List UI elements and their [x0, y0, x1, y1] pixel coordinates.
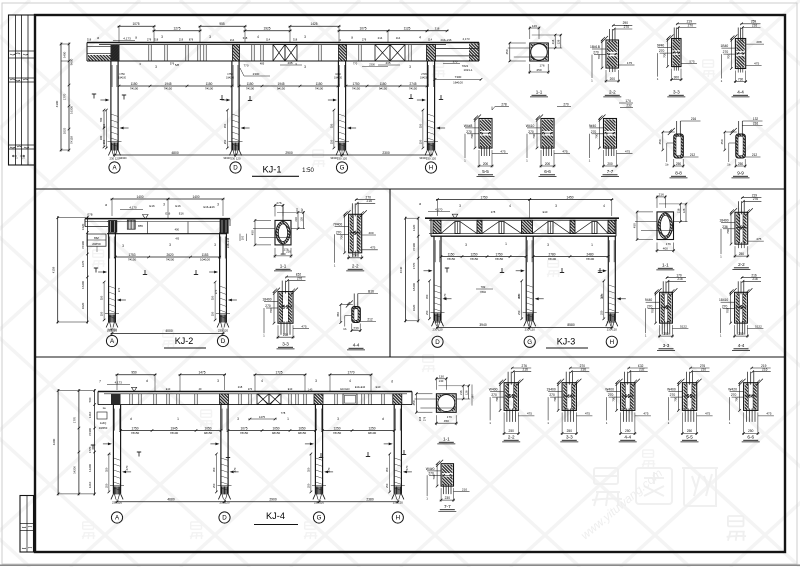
svg-text:350: 350	[418, 123, 422, 128]
svg-text:450: 450	[536, 68, 541, 72]
svg-text:E16: E16	[179, 211, 184, 215]
svg-text:500: 500	[88, 397, 92, 402]
svg-text:1275: 1275	[259, 415, 266, 419]
svg-text:250: 250	[418, 139, 422, 144]
svg-text:700: 700	[726, 308, 730, 313]
svg-text:1250: 1250	[471, 252, 478, 256]
svg-text:7#100: 7#100	[205, 87, 214, 91]
section 1-1 (KJ-4)	[436, 394, 456, 413]
svg-text:7#02: 7#02	[480, 290, 486, 294]
svg-text:G: G	[527, 339, 532, 346]
svg-text:232: 232	[626, 103, 632, 107]
svg-text:126: 126	[465, 390, 469, 395]
KJ-4 left annotations	[102, 406, 106, 410]
svg-text:1945: 1945	[165, 82, 172, 86]
section 2-2 (KJ-2)	[351, 203, 353, 216]
svg-text:126: 126	[682, 208, 686, 213]
svg-text:174: 174	[625, 99, 631, 103]
svg-text:278: 278	[362, 38, 367, 42]
section 4-4 (KJ-1)	[737, 28, 739, 41]
svg-text:700: 700	[726, 229, 730, 234]
KJ-1 bottom dimension row	[113, 154, 237, 156]
svg-text:1750: 1750	[353, 82, 360, 86]
svg-text:9#150: 9#150	[204, 431, 213, 435]
svg-text:2300: 2300	[369, 63, 375, 67]
svg-text:276: 276	[297, 276, 303, 280]
svg-text:H: H	[429, 165, 433, 172]
svg-text:1150: 1150	[448, 252, 455, 256]
svg-text:H: H	[610, 339, 614, 346]
svg-text:1021-1: 1021-1	[463, 68, 472, 72]
svg-text:3: 3	[547, 243, 549, 247]
svg-text:4200: 4200	[52, 438, 56, 445]
svg-text:E16+E16: E16+E16	[203, 205, 215, 209]
svg-text:216: 216	[762, 368, 768, 372]
svg-text:7#300: 7#300	[81, 241, 85, 249]
svg-text:D: D	[222, 515, 227, 522]
svg-text:219: 219	[179, 39, 184, 42]
svg-text:216: 216	[691, 117, 697, 121]
svg-text:200: 200	[483, 162, 489, 166]
svg-text:9440: 9440	[645, 298, 653, 302]
svg-text:2900: 2900	[269, 498, 277, 502]
svg-text:350: 350	[329, 123, 333, 128]
KJ-1 section cut marks	[93, 94, 95, 99]
svg-text:1153: 1153	[202, 253, 209, 257]
svg-text:276: 276	[753, 197, 759, 201]
svg-text:2-2: 2-2	[609, 90, 616, 95]
svg-text:3: 3	[214, 243, 216, 247]
svg-text:W410: W410	[526, 124, 535, 128]
KJ-2 title	[175, 336, 194, 346]
svg-text:2-2: 2-2	[508, 435, 515, 440]
svg-text:250: 250	[625, 429, 631, 433]
svg-text:9#150: 9#150	[298, 431, 307, 435]
svg-text:350: 350	[104, 467, 108, 472]
svg-text:64: 64	[295, 208, 299, 212]
svg-text:14200: 14200	[73, 466, 77, 474]
svg-text:250: 250	[663, 332, 669, 336]
svg-text:350: 350	[385, 467, 389, 472]
KJ-3 stirrup dim row left span	[441, 256, 526, 258]
svg-text:9#40: 9#40	[657, 44, 665, 48]
svg-text:1050: 1050	[205, 426, 212, 430]
svg-text:4300: 4300	[55, 100, 59, 107]
band divider 2	[35, 356, 785, 358]
svg-text:250: 250	[223, 139, 227, 144]
svg-text:7#100: 7#100	[315, 87, 324, 91]
svg-text:230: 230	[283, 333, 289, 337]
svg-text:216: 216	[752, 23, 758, 27]
svg-text:9#400: 9#400	[420, 157, 428, 160]
svg-text:230: 230	[353, 327, 359, 331]
svg-text:200: 200	[545, 162, 551, 166]
svg-text:3420: 3420	[81, 223, 85, 230]
svg-text:230: 230	[445, 496, 451, 500]
svg-text:9#400: 9#400	[224, 157, 232, 160]
svg-text:7#150: 7#150	[447, 257, 456, 261]
svg-text:9#400: 9#400	[120, 157, 128, 160]
svg-text:450: 450	[720, 139, 724, 144]
KJ-1 left dimension chain inner	[68, 43, 70, 152]
svg-text:250: 250	[599, 310, 603, 315]
svg-text:1770: 1770	[412, 262, 416, 269]
svg-text:450: 450	[412, 400, 416, 405]
KJ-1 title	[263, 165, 282, 175]
svg-text:475: 475	[756, 237, 761, 241]
svg-text:1: 1	[591, 243, 593, 247]
svg-text:E10: E10	[288, 388, 293, 391]
KJ-2 bottom dimension row	[111, 332, 225, 334]
KJ-4 top dimension row	[116, 374, 157, 376]
svg-text:218: 218	[238, 385, 243, 389]
svg-text:370: 370	[453, 60, 458, 64]
KJ-4 column H	[393, 405, 395, 494]
svg-text:270: 270	[723, 50, 729, 54]
svg-text:1050: 1050	[335, 73, 341, 76]
svg-text:400: 400	[368, 231, 373, 235]
svg-text:7#150: 7#150	[352, 87, 361, 91]
svg-text:1b: 1b	[343, 327, 347, 331]
svg-text:3: 3	[337, 417, 339, 421]
svg-text:7300: 7300	[455, 75, 462, 79]
svg-text:7#150: 7#150	[409, 87, 418, 91]
KJ-4 axis bubble A	[111, 512, 122, 523]
svg-text:7#100: 7#100	[412, 243, 416, 251]
svg-text:270: 270	[517, 293, 521, 298]
svg-text:18410: 18410	[719, 298, 728, 302]
svg-text:130: 130	[439, 375, 444, 379]
svg-text:475: 475	[754, 61, 759, 65]
svg-text:250: 250	[329, 139, 333, 144]
svg-text:18400: 18400	[262, 298, 271, 302]
svg-text:475: 475	[562, 149, 567, 153]
svg-text:2900: 2900	[285, 151, 293, 155]
svg-text:270: 270	[265, 304, 271, 308]
svg-text:216: 216	[419, 416, 422, 421]
svg-text:7#150: 7#150	[240, 431, 249, 435]
KJ-1 axis bubble H	[425, 162, 436, 173]
svg-text:400: 400	[663, 247, 668, 251]
svg-text:2620: 2620	[167, 253, 174, 257]
svg-text:9#100: 9#100	[368, 431, 377, 435]
svg-text:W400: W400	[489, 388, 498, 392]
KJ-3 bottom dimension row	[436, 326, 531, 328]
svg-text:270: 270	[248, 388, 253, 391]
svg-text:114: 114	[266, 38, 271, 42]
svg-text:2745: 2745	[421, 73, 427, 76]
svg-text:250: 250	[739, 252, 745, 256]
svg-text:700: 700	[595, 133, 599, 138]
svg-text:475: 475	[370, 246, 375, 250]
svg-text:3-3: 3-3	[663, 343, 670, 348]
svg-text:270: 270	[528, 130, 534, 134]
svg-text:114: 114	[428, 38, 433, 42]
svg-text:216: 216	[753, 121, 759, 125]
section 3-3 (KJ-3)	[662, 281, 664, 294]
svg-text:1050: 1050	[299, 426, 306, 430]
svg-text:3-3: 3-3	[566, 435, 573, 440]
svg-text:270: 270	[443, 293, 447, 298]
svg-text:212: 212	[367, 317, 373, 321]
KJ-1 extra small annotations	[87, 38, 92, 42]
frame KJ-4 beam	[98, 391, 412, 393]
svg-text:270: 270	[563, 102, 569, 106]
svg-text:1020: 1020	[412, 304, 416, 311]
svg-text:4-4: 4-4	[737, 90, 744, 95]
svg-text:250: 250	[104, 483, 108, 488]
svg-text:4: 4	[261, 379, 263, 383]
svg-text:7#150: 7#150	[128, 258, 137, 262]
svg-text:270: 270	[549, 393, 555, 397]
svg-text:KJ-1: KJ-1	[263, 165, 282, 175]
svg-text:700: 700	[651, 308, 655, 313]
svg-text:3: 3	[217, 379, 219, 383]
svg-text:132: 132	[753, 117, 759, 121]
svg-text:7#100: 7#100	[548, 257, 557, 261]
svg-text:475: 475	[301, 325, 306, 329]
svg-text:700: 700	[269, 308, 273, 313]
section 2-2 (KJ-3)	[738, 201, 740, 214]
svg-text:7#22: 7#22	[462, 64, 469, 68]
svg-text:176: 176	[666, 242, 671, 246]
svg-text:250: 250	[567, 429, 573, 433]
svg-text:318: 318	[87, 38, 92, 42]
svg-text:216: 216	[677, 277, 683, 281]
svg-text:E10 E10: E10 E10	[340, 388, 350, 391]
svg-text:7#150: 7#150	[333, 431, 342, 435]
svg-text:3: 3	[459, 204, 461, 208]
KJ-3 column G	[525, 236, 527, 321]
svg-text:1750: 1750	[132, 426, 139, 430]
svg-text:270: 270	[466, 130, 472, 134]
section 4-4 (KJ-4)	[624, 372, 626, 385]
svg-text:7#150: 7#150	[495, 257, 504, 261]
svg-text:180: 180	[99, 135, 103, 140]
KJ-4 left dimension chain outermost	[57, 389, 59, 495]
svg-text:1770: 1770	[88, 446, 92, 453]
svg-text:1770: 1770	[63, 93, 67, 100]
svg-text:475: 475	[500, 149, 505, 153]
svg-text:7#150: 7#150	[131, 431, 140, 435]
svg-text:270: 270	[591, 130, 597, 134]
svg-text:1270: 1270	[81, 260, 85, 267]
svg-text:9#400: 9#400	[331, 157, 339, 160]
svg-text:770: 770	[243, 64, 248, 68]
svg-text:7-7: 7-7	[444, 504, 451, 509]
svg-text:14200: 14200	[88, 464, 92, 472]
svg-text:3: 3	[209, 35, 211, 39]
svg-text:1075: 1075	[359, 27, 366, 31]
section 6-6 (KJ-4)	[747, 372, 749, 385]
band 2 vertical divider	[389, 189, 391, 357]
svg-text:3: 3	[161, 35, 163, 39]
svg-text:3: 3	[237, 417, 239, 421]
KJ-2 beam mid dividers	[147, 222, 149, 234]
svg-text:1750: 1750	[496, 252, 503, 256]
svg-text:288: 288	[756, 40, 761, 44]
svg-text:2300: 2300	[382, 151, 390, 155]
svg-text:1075: 1075	[241, 426, 248, 430]
svg-text:a: a	[419, 202, 421, 206]
svg-text:4-4: 4-4	[738, 343, 745, 348]
section 2-2 (KJ-1)	[609, 29, 611, 42]
svg-text:19400: 19400	[547, 388, 556, 392]
svg-text:1-1: 1-1	[662, 263, 669, 268]
svg-text:700: 700	[340, 235, 344, 240]
svg-text:1750: 1750	[480, 195, 487, 199]
section 3-3 (KJ-4)	[565, 372, 567, 385]
section 6-6 (KJ-1)	[543, 146, 545, 156]
svg-text:1150: 1150	[380, 82, 387, 86]
svg-text:4,170: 4,170	[129, 206, 137, 210]
svg-text:575: 575	[689, 59, 694, 63]
svg-text:950: 950	[131, 371, 137, 375]
svg-text:3: 3	[122, 244, 124, 248]
svg-text:782: 782	[481, 285, 486, 289]
svg-text:216: 216	[286, 250, 291, 254]
svg-text:700: 700	[532, 133, 536, 138]
svg-text:300: 300	[674, 75, 680, 79]
svg-text:475: 475	[643, 412, 648, 416]
svg-text:350: 350	[211, 295, 215, 300]
svg-text:18200: 18200	[412, 283, 416, 291]
svg-text:216: 216	[523, 368, 529, 372]
svg-text:1050: 1050	[273, 426, 280, 430]
svg-text:216: 216	[367, 199, 373, 203]
svg-text:270: 270	[117, 287, 121, 292]
section 1-1 (KJ-2)	[275, 220, 291, 245]
svg-text:250: 250	[306, 483, 310, 488]
KJ-1 column A	[110, 61, 112, 150]
svg-text:10#100: 10#100	[118, 76, 127, 79]
svg-text:114: 114	[396, 36, 401, 40]
KJ-2 beam column-A top block	[108, 220, 117, 233]
svg-text:216: 216	[581, 368, 587, 372]
svg-text:700: 700	[726, 54, 730, 59]
svg-text:G: G	[340, 165, 345, 172]
svg-text:878: 878	[189, 39, 194, 42]
svg-text:270: 270	[659, 49, 665, 53]
svg-text:318: 318	[243, 36, 248, 40]
KJ-2 stirrup dim row	[115, 256, 219, 258]
KJ-1 right cantilever annotation	[453, 60, 458, 64]
svg-text:7#100: 7#100	[586, 257, 595, 261]
svg-text:G: G	[317, 515, 322, 522]
svg-text:435: 435	[287, 61, 292, 65]
svg-text:3940: 3940	[479, 323, 487, 327]
KJ-3 mid annotations	[465, 243, 467, 247]
svg-text:250: 250	[738, 162, 744, 166]
section 4-4 (KJ-2)	[353, 294, 355, 309]
svg-text:1425: 1425	[310, 22, 317, 26]
svg-text:10#150: 10#150	[334, 76, 343, 79]
section 3-3 (KJ-2)	[281, 281, 283, 294]
svg-text:16200: 16200	[81, 281, 85, 289]
svg-text:4,173: 4,173	[115, 381, 123, 385]
svg-text:1150: 1150	[131, 82, 138, 86]
section 2-2 (KJ-4)	[507, 372, 509, 385]
KJ-4 axis bubble G	[313, 512, 324, 523]
svg-text:1770: 1770	[347, 371, 354, 375]
svg-text:5/8: 5/8	[175, 63, 180, 67]
svg-text:3: 3	[163, 203, 165, 207]
KJ-4 mid annotations	[130, 417, 132, 421]
svg-text:700: 700	[470, 133, 474, 138]
svg-text:1125: 1125	[404, 27, 411, 31]
section 7-7 (KJ-1)	[605, 146, 607, 156]
section 4-4 (KJ-3)	[737, 281, 739, 294]
svg-text:E7B: E7B	[88, 213, 93, 217]
svg-text:350: 350	[306, 467, 310, 472]
KJ-2 level mark	[143, 215, 149, 219]
svg-text:1450: 1450	[566, 195, 573, 199]
svg-text:4: 4	[419, 36, 421, 40]
svg-text:E16+E16: E16+E16	[227, 237, 230, 248]
svg-text:475: 475	[585, 412, 590, 416]
KJ-2 beam column-D top block	[220, 219, 229, 234]
svg-text:230 120: 230 120	[109, 157, 120, 161]
svg-text:250: 250	[385, 483, 389, 488]
KJ-4 beam stiffeners and haunch	[111, 394, 121, 405]
svg-text:126: 126	[557, 39, 561, 44]
svg-text:9#150: 9#150	[379, 87, 388, 91]
svg-text:270: 270	[647, 304, 653, 308]
svg-text:4800: 4800	[171, 151, 179, 155]
svg-text:1400: 1400	[136, 195, 143, 199]
svg-text:350: 350	[425, 294, 429, 299]
title strip bottom-left	[20, 496, 34, 553]
svg-text:3: 3	[465, 243, 467, 247]
svg-text:16#100: 16#100	[453, 81, 463, 85]
svg-text:250: 250	[517, 310, 521, 315]
svg-text:1150: 1150	[247, 82, 254, 86]
section 7-7 (KJ-4)	[443, 484, 445, 494]
svg-text:216: 216	[294, 217, 298, 222]
svg-text:d: d	[382, 417, 384, 421]
KJ-1 left dimension chain outer	[60, 43, 62, 152]
svg-text:270: 270	[428, 471, 434, 475]
svg-text:3-3: 3-3	[673, 90, 680, 95]
svg-text:100: 100	[242, 235, 245, 240]
title strip top-left	[9, 15, 36, 165]
svg-text:4,170: 4,170	[435, 208, 443, 212]
svg-text:126: 126	[532, 24, 537, 28]
KJ-3 column D	[433, 236, 435, 321]
svg-text:250: 250	[211, 311, 215, 316]
svg-text:2780: 2780	[549, 252, 556, 256]
KJ-1 mid-span annotations	[175, 63, 180, 67]
svg-text:9-9: 9-9	[737, 171, 744, 176]
svg-text:276: 276	[424, 416, 427, 421]
KJ-3 beam truss posts and diagonals	[433, 220, 441, 233]
KJ-4 left dimension chain inner	[94, 389, 96, 495]
KJ-2 column A	[108, 233, 110, 323]
svg-text:780: 780	[99, 117, 103, 122]
svg-text:5122: 5122	[680, 324, 687, 328]
svg-text:18400: 18400	[719, 219, 728, 223]
svg-text:475: 475	[527, 412, 532, 416]
svg-text:1: 1	[177, 417, 179, 421]
svg-text:4,173: 4,173	[463, 37, 470, 41]
svg-text:270: 270	[405, 465, 409, 470]
svg-text:W400: W400	[667, 388, 676, 392]
svg-text:5-5: 5-5	[482, 169, 489, 174]
svg-text:7#128: 7#128	[70, 136, 74, 144]
svg-text:1250: 1250	[334, 426, 341, 430]
svg-text:176: 176	[447, 415, 452, 419]
svg-text:250: 250	[353, 254, 359, 258]
